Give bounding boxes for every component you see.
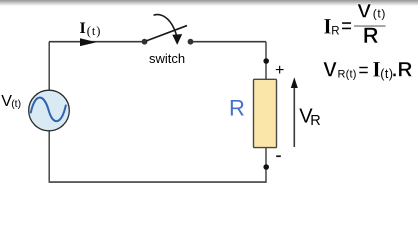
svg-text:switch: switch [149, 51, 185, 66]
node dot top of resistor branch [263, 58, 269, 64]
node dot bottom of resistor branch [263, 164, 269, 170]
wire left vertical upper [48, 42, 50, 91]
svg-text:R: R [310, 113, 320, 129]
svg-text:V: V [323, 59, 337, 82]
svg-text:=: = [358, 61, 369, 81]
wire right vertical upper [265, 42, 267, 80]
svg-text:=: = [341, 16, 352, 37]
AC source circle V(t) [29, 90, 70, 131]
wire top-left horizontal [49, 41, 142, 43]
current arrow I(t) [80, 38, 97, 46]
switch arc arrowhead [172, 34, 182, 45]
sine wave [31, 98, 66, 122]
switch blade [146, 26, 187, 41]
switch terminal right [188, 39, 194, 45]
wire bottom horizontal [49, 181, 267, 183]
svg-text:(t): (t) [11, 98, 21, 110]
wire right vertical lower [265, 147, 267, 183]
VR arrowhead [291, 77, 298, 88]
svg-text:(t): (t) [87, 24, 102, 38]
minus terminal label [276, 155, 281, 157]
svg-text:R(t): R(t) [338, 69, 357, 81]
VR arrow line [293, 87, 295, 147]
wire left vertical lower [48, 131, 50, 183]
resistor R body [254, 79, 277, 147]
svg-text:I: I [80, 20, 86, 37]
switch terminal left [142, 39, 148, 45]
svg-text:+: + [275, 62, 284, 79]
svg-text:R: R [229, 95, 245, 120]
svg-text:V: V [357, 1, 372, 22]
fraction bar [354, 25, 386, 27]
svg-text:.R: .R [392, 59, 413, 82]
svg-text:R: R [363, 23, 379, 48]
wire top-right horizontal [193, 41, 266, 43]
switch motion arc [154, 15, 177, 35]
svg-text:(t): (t) [373, 7, 386, 21]
svg-text:R: R [331, 26, 339, 38]
top toolbar shadow band [0, 0, 418, 6]
